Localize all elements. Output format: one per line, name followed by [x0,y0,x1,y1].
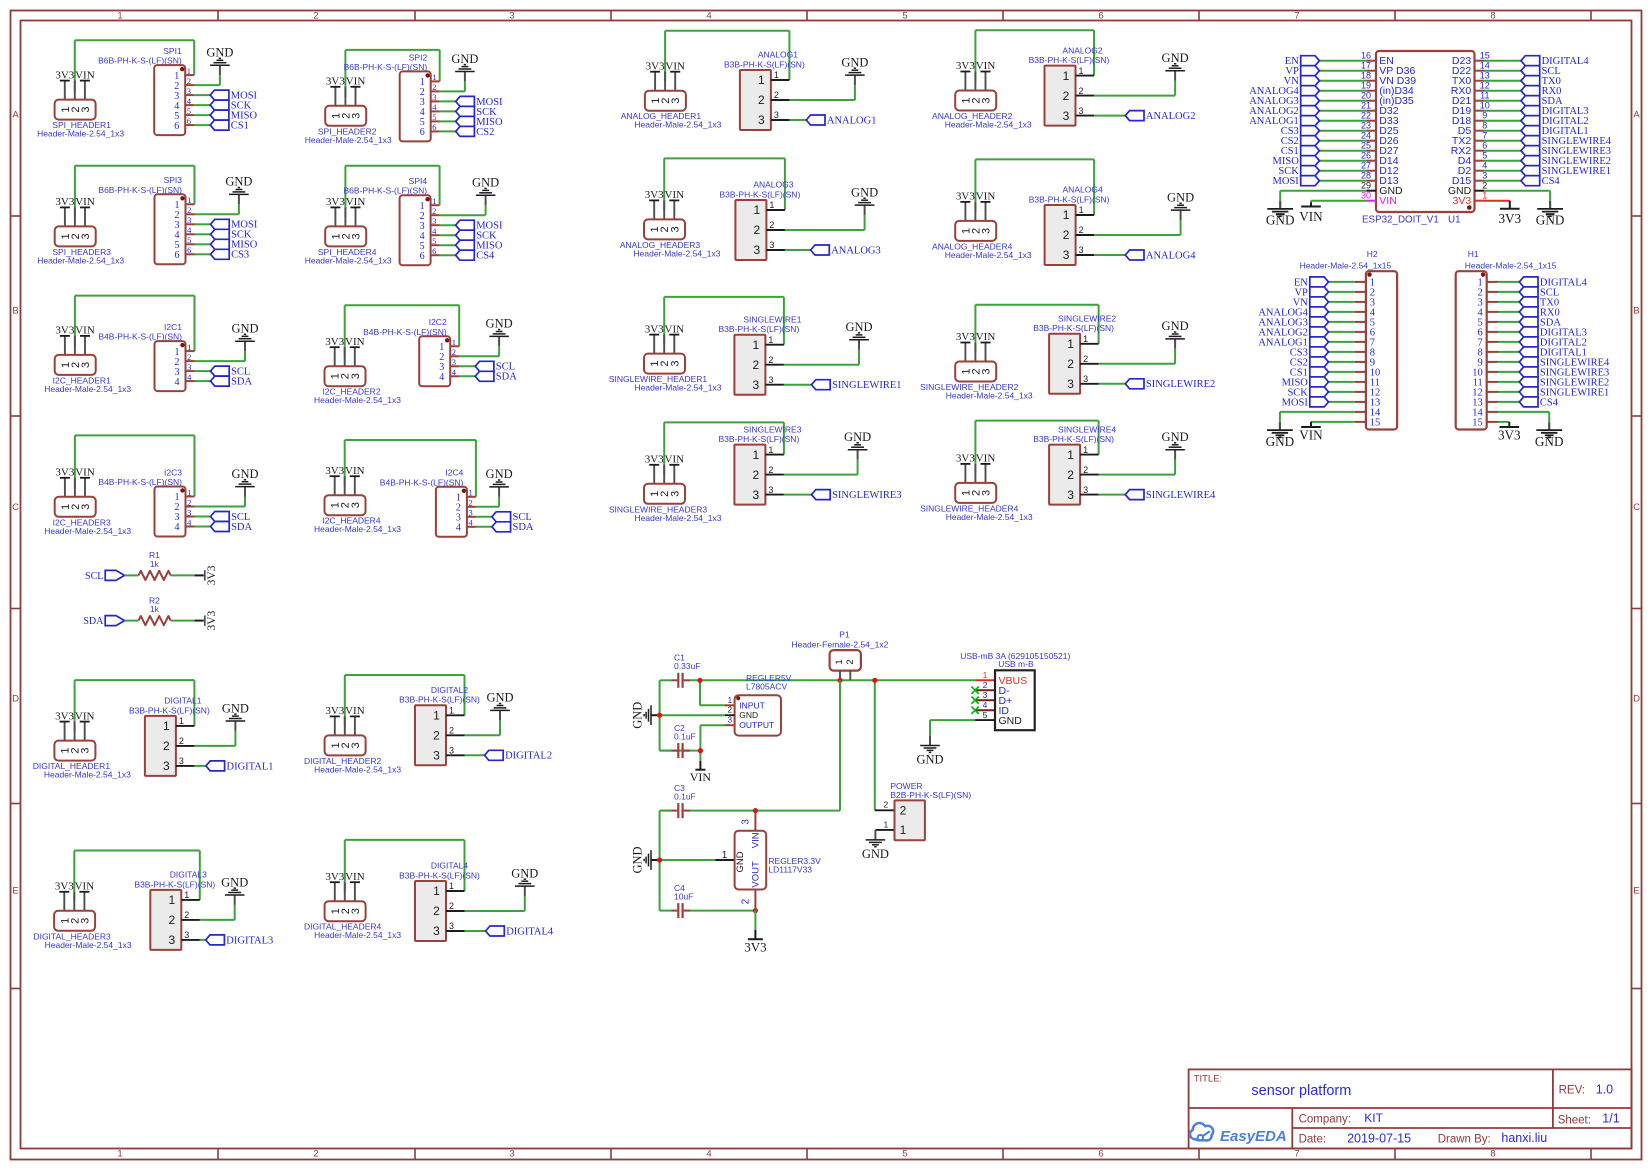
svg-text:B6B-PH-K-S-(LF)(SN): B6B-PH-K-S-(LF)(SN) [344,186,428,196]
svg-text:Header-Male-2.54_1x3: Header-Male-2.54_1x3 [305,135,392,145]
svg-text:Header-Male-2.54_1x3: Header-Male-2.54_1x3 [945,120,1032,130]
svg-text:1: 1 [449,881,454,891]
svg-text:SPI2: SPI2 [409,52,428,62]
svg-text:3V3: 3V3 [325,465,344,477]
svg-text:3: 3 [80,107,92,113]
svg-text:1: 1 [722,850,728,861]
svg-text:4: 4 [432,102,437,112]
svg-text:3V3: 3V3 [956,60,975,72]
svg-text:Header-Male-2.54_1x3: Header-Male-2.54_1x3 [305,255,392,265]
svg-text:1: 1 [187,195,191,205]
svg-text:SDA: SDA [496,372,517,383]
svg-text:VIN: VIN [346,196,366,208]
svg-text:4: 4 [432,226,437,236]
svg-text:1: 1 [1482,191,1487,201]
svg-text:GND: GND [916,752,943,766]
svg-text:23: 23 [1361,121,1371,131]
svg-text:3V3: 3V3 [206,565,218,585]
svg-text:2: 2 [449,726,454,736]
svg-text:1: 1 [187,487,191,497]
svg-text:B2B-PH-K-S(LF)(SN): B2B-PH-K-S(LF)(SN) [890,790,971,800]
svg-text:1k: 1k [150,604,160,614]
svg-text:VIN: VIN [1299,428,1323,443]
svg-text:VIN: VIN [976,331,996,343]
svg-text:1: 1 [1063,69,1070,83]
svg-text:1: 1 [432,196,436,206]
svg-text:2: 2 [313,1148,318,1159]
svg-text:U1: U1 [1448,215,1461,226]
svg-text:2: 2 [432,206,436,216]
svg-text:5: 5 [187,106,191,116]
svg-text:3V3: 3V3 [55,467,74,479]
svg-text:2: 2 [432,82,436,92]
svg-text:2: 2 [468,498,472,508]
svg-text:VOUT: VOUT [750,861,761,888]
svg-text:3V3: 3V3 [325,705,344,717]
svg-text:Header-Male-2.54_1x3: Header-Male-2.54_1x3 [945,250,1032,260]
svg-text:DIGITAL3: DIGITAL3 [170,870,207,880]
svg-text:8: 8 [1490,10,1495,21]
svg-text:2: 2 [753,468,760,482]
svg-text:4: 4 [706,1148,711,1159]
svg-text:1: 1 [184,890,189,900]
svg-text:1: 1 [753,338,760,352]
svg-text:2: 2 [1482,181,1487,191]
svg-text:3: 3 [1083,374,1088,384]
svg-text:ANALOG4: ANALOG4 [1063,185,1103,195]
svg-text:VIN: VIN [665,189,685,201]
svg-text:1: 1 [117,10,122,21]
svg-text:VIN: VIN [665,60,685,72]
svg-text:1: 1 [433,884,440,898]
svg-text:3V3: 3V3 [55,881,74,893]
svg-text:GND: GND [1162,319,1189,333]
svg-text:GND: GND [999,715,1023,727]
svg-text:VIN: VIN [75,325,95,337]
svg-text:GND: GND [841,55,868,69]
svg-text:B3B-PH-K-S(LF)(SN): B3B-PH-K-S(LF)(SN) [399,695,480,705]
svg-text:Header-Male-2.54_1x3: Header-Male-2.54_1x3 [37,255,124,265]
svg-text:3V3: 3V3 [744,940,766,955]
svg-text:3V3: 3V3 [645,454,664,466]
svg-text:8: 8 [1490,1148,1495,1159]
svg-text:6: 6 [420,127,425,138]
svg-text:B3B-PH-K-S(LF)(SN): B3B-PH-K-S(LF)(SN) [719,434,800,444]
svg-text:2: 2 [1063,89,1070,103]
svg-text:Header-Male-2.54_1x3: Header-Male-2.54_1x3 [37,129,124,139]
svg-text:Header-Male-2.54_1x3: Header-Male-2.54_1x3 [314,930,401,940]
svg-text:GND: GND [1535,434,1564,449]
svg-text:1: 1 [774,70,779,80]
svg-text:3: 3 [774,110,779,120]
svg-text:3: 3 [981,490,993,496]
svg-text:3: 3 [1063,248,1070,262]
svg-text:Header-Male-2.54_1x3: Header-Male-2.54_1x3 [635,513,722,523]
svg-text:1: 1 [1083,445,1088,455]
svg-text:4: 4 [452,367,457,377]
svg-text:B6B-PH-K-S-(LF)(SN): B6B-PH-K-S-(LF)(SN) [98,56,182,66]
svg-text:3V3: 3V3 [1498,211,1521,226]
svg-text:6: 6 [187,116,191,126]
svg-text:B3B-PH-K-S(LF)(SN): B3B-PH-K-S(LF)(SN) [724,59,805,69]
svg-text:SINGLEWIRE1: SINGLEWIRE1 [743,314,801,324]
svg-text:3V3: 3V3 [55,196,74,208]
svg-text:2: 2 [452,347,456,357]
svg-text:GND: GND [845,320,872,334]
svg-text:OUTPUT: OUTPUT [739,720,774,730]
svg-text:2: 2 [1079,225,1084,235]
svg-text:2: 2 [1063,228,1070,242]
svg-text:3V3: 3V3 [55,325,74,337]
svg-text:VIN: VIN [345,465,365,477]
svg-text:GND: GND [472,176,499,190]
svg-text:3: 3 [432,92,436,102]
svg-text:3: 3 [754,243,761,257]
svg-text:4: 4 [1482,161,1487,171]
svg-text:VIN: VIN [75,467,95,479]
svg-text:GND: GND [1536,213,1565,228]
svg-text:3: 3 [351,233,363,239]
svg-text:REV:: REV: [1559,1085,1585,1097]
svg-text:0.33uF: 0.33uF [674,661,700,671]
svg-text:SDA: SDA [231,522,252,533]
svg-text:0.1uF: 0.1uF [674,731,696,741]
svg-text:GND: GND [739,710,758,720]
svg-text:1: 1 [468,488,472,498]
svg-text:2: 2 [754,223,761,237]
svg-text:CS4: CS4 [1542,176,1561,187]
svg-text:Header-Male-2.54_1x3: Header-Male-2.54_1x3 [44,526,131,536]
svg-text:3: 3 [350,373,362,379]
svg-text:2: 2 [187,76,191,86]
svg-text:I2C3: I2C3 [164,467,182,477]
svg-text:3: 3 [468,508,472,518]
svg-text:GND: GND [221,875,248,889]
svg-text:6: 6 [432,122,436,132]
svg-text:1: 1 [117,1148,122,1159]
svg-text:2: 2 [884,799,889,809]
svg-text:1: 1 [432,72,436,82]
svg-text:6: 6 [432,246,436,256]
svg-text:4: 4 [175,377,180,388]
svg-text:VIN: VIN [345,705,365,717]
svg-text:1: 1 [900,823,907,837]
svg-text:11: 11 [1480,91,1489,101]
svg-text:3: 3 [1078,106,1083,116]
svg-text:3: 3 [753,488,760,502]
svg-text:15: 15 [1472,418,1483,429]
svg-text:L7805ACV: L7805ACV [746,681,787,691]
svg-text:2: 2 [758,93,765,107]
svg-text:3: 3 [753,378,760,392]
svg-text:3V3: 3V3 [55,710,74,722]
svg-text:B3B-PH-K-S(LF)(SN): B3B-PH-K-S(LF)(SN) [1033,323,1114,333]
svg-text:3: 3 [509,1148,514,1159]
svg-text:VIN: VIN [976,191,996,203]
svg-text:1/1: 1/1 [1602,1112,1619,1126]
svg-text:CS1: CS1 [231,121,249,132]
svg-text:2: 2 [774,90,779,100]
svg-text:GND: GND [231,467,258,481]
svg-text:B4B-PH-K-S-(LF)(SN): B4B-PH-K-S-(LF)(SN) [98,332,182,342]
svg-text:B4B-PH-K-S-(LF)(SN): B4B-PH-K-S-(LF)(SN) [380,477,464,487]
svg-text:1: 1 [834,659,845,664]
svg-text:Header-Male-2.54_1x3: Header-Male-2.54_1x3 [314,395,401,405]
svg-text:4: 4 [456,523,461,534]
svg-text:9: 9 [1482,111,1487,121]
svg-text:SINGLEWIRE4: SINGLEWIRE4 [1058,424,1116,434]
svg-text:4: 4 [175,522,180,533]
svg-text:3: 3 [768,485,773,495]
svg-text:VIN: VIN [1299,209,1323,224]
svg-text:5: 5 [187,235,191,245]
svg-text:10uF: 10uF [674,891,693,901]
svg-text:4: 4 [187,96,192,106]
svg-text:1: 1 [1067,337,1074,351]
svg-text:GND: GND [1266,213,1295,228]
svg-text:1: 1 [1083,334,1088,344]
svg-text:2: 2 [845,659,856,664]
svg-text:6: 6 [174,121,179,132]
svg-text:Header-Female-2.54_1x2: Header-Female-2.54_1x2 [791,639,888,649]
svg-text:3V3: 3V3 [206,610,218,630]
svg-text:3: 3 [670,98,682,104]
svg-text:DIGITAL1: DIGITAL1 [164,696,201,706]
svg-text:Header-Male-2.54_1x3: Header-Male-2.54_1x3 [44,384,131,394]
svg-text:ANALOG1: ANALOG1 [758,50,798,60]
svg-text:VIN: VIN [346,76,366,88]
svg-text:3V3: 3V3 [326,76,345,88]
svg-text:Date:: Date: [1299,1133,1327,1145]
svg-text:GND: GND [1162,51,1189,65]
svg-text:1: 1 [768,335,773,345]
svg-text:Company:: Company: [1299,1113,1351,1125]
svg-text:2: 2 [983,680,988,690]
svg-text:1: 1 [187,342,191,352]
svg-text:I2C4: I2C4 [445,468,463,478]
svg-text:B: B [12,305,18,316]
svg-text:3: 3 [179,756,184,766]
svg-text:3: 3 [981,97,993,103]
svg-text:USB m-B: USB m-B [998,659,1034,669]
svg-text:3: 3 [350,502,362,508]
svg-text:B3B-PH-K-S(LF)(SN): B3B-PH-K-S(LF)(SN) [720,189,801,199]
svg-text:3: 3 [728,716,733,725]
svg-text:1: 1 [758,73,765,87]
svg-text:13: 13 [1480,71,1490,81]
svg-text:2: 2 [433,904,440,918]
svg-text:Header-Male-2.54_1x15: Header-Male-2.54_1x15 [1465,261,1557,271]
svg-text:24: 24 [1361,131,1371,141]
svg-text:2: 2 [187,205,191,215]
svg-text:GND: GND [511,866,538,880]
svg-text:VIN: VIN [690,770,712,784]
svg-text:1: 1 [452,337,456,347]
svg-text:2: 2 [1083,354,1088,364]
svg-text:3: 3 [350,908,362,914]
svg-text:5: 5 [1482,151,1487,161]
svg-text:GND: GND [225,175,252,189]
svg-text:E: E [1633,885,1639,896]
svg-text:VIN: VIN [75,69,95,81]
svg-text:3: 3 [80,504,92,510]
svg-text:2019-07-15: 2019-07-15 [1347,1131,1411,1145]
svg-text:2: 2 [168,913,175,927]
svg-text:SDA: SDA [513,522,534,533]
svg-text:3: 3 [740,819,751,825]
svg-text:1: 1 [1078,66,1083,76]
svg-text:DIGITAL2: DIGITAL2 [505,751,552,762]
svg-text:21: 21 [1361,101,1371,111]
svg-text:GND: GND [1266,434,1295,449]
svg-text:CS4: CS4 [476,251,495,262]
svg-text:DIGITAL3: DIGITAL3 [226,935,273,946]
svg-text:16: 16 [1361,51,1371,61]
svg-text:B3B-PH-K-S(LF)(SN): B3B-PH-K-S(LF)(SN) [1033,434,1114,444]
svg-text:19: 19 [1361,81,1371,91]
svg-text:hanxi.liu: hanxi.liu [1501,1131,1547,1145]
svg-text:2: 2 [163,739,170,753]
svg-text:0.1uF: 0.1uF [674,791,696,801]
svg-text:3: 3 [669,491,681,497]
svg-text:GND: GND [630,702,644,729]
svg-text:2: 2 [740,898,751,904]
svg-text:3: 3 [768,375,773,385]
svg-text:B3B-PH-K-S(LF)(SN): B3B-PH-K-S(LF)(SN) [399,870,480,880]
svg-text:3: 3 [80,748,92,754]
svg-text:SPI4: SPI4 [409,176,428,186]
svg-text:2: 2 [1067,357,1074,371]
svg-text:SINGLEWIRE2: SINGLEWIRE2 [1146,379,1215,390]
svg-text:Header-Male-2.54_1x3: Header-Male-2.54_1x3 [44,770,131,780]
svg-text:17: 17 [1361,61,1371,71]
svg-text:2: 2 [1067,468,1074,482]
svg-text:2: 2 [769,220,774,230]
svg-text:D: D [1633,693,1640,704]
svg-text:3V3: 3V3 [326,196,345,208]
svg-text:7: 7 [1294,10,1299,21]
svg-text:3: 3 [449,746,454,756]
svg-text:MOSI: MOSI [1273,176,1300,187]
svg-text:2: 2 [449,901,454,911]
svg-text:3: 3 [184,930,189,940]
svg-text:2: 2 [187,352,191,362]
svg-text:I2C1: I2C1 [164,322,182,332]
svg-text:3: 3 [432,216,436,226]
svg-text:SCL: SCL [85,571,103,582]
svg-text:3: 3 [981,228,993,234]
svg-text:GND: GND [1167,190,1194,204]
svg-text:VIN: VIN [345,336,365,348]
svg-text:D: D [12,693,19,704]
svg-text:29: 29 [1361,181,1371,191]
svg-text:1: 1 [163,719,170,733]
svg-text:CS3: CS3 [231,250,249,261]
svg-text:GND: GND [222,701,249,715]
svg-text:3: 3 [433,749,440,763]
svg-text:3: 3 [168,933,175,947]
svg-text:2: 2 [768,355,773,365]
svg-text:B6B-PH-K-S-(LF)(SN): B6B-PH-K-S-(LF)(SN) [344,62,428,72]
svg-text:1: 1 [753,448,760,462]
svg-text:27: 27 [1361,161,1371,171]
svg-text:3: 3 [1079,245,1084,255]
svg-text:SPI3: SPI3 [164,175,183,185]
svg-text:3: 3 [509,10,514,21]
svg-text:B3B-PH-K-S(LF)(SN): B3B-PH-K-S(LF)(SN) [1029,55,1110,65]
svg-text:2: 2 [179,736,184,746]
svg-text:5: 5 [902,1148,907,1159]
svg-text:VIN: VIN [665,454,685,466]
svg-text:Header-Male-2.54_1x3: Header-Male-2.54_1x3 [314,764,401,774]
svg-text:DIGITAL4: DIGITAL4 [506,926,554,937]
svg-text:Header-Male-2.54_1x3: Header-Male-2.54_1x3 [946,391,1033,401]
svg-text:1.0: 1.0 [1596,1083,1613,1097]
svg-text:Header-Male-2.54_1x3: Header-Male-2.54_1x3 [634,120,721,130]
svg-text:4: 4 [187,225,192,235]
svg-text:3: 3 [1063,109,1070,123]
svg-text:Header-Male-2.54_1x3: Header-Male-2.54_1x3 [635,383,722,393]
svg-text:VIN: VIN [976,60,996,72]
svg-text:B6B-PH-K-S-(LF)(SN): B6B-PH-K-S-(LF)(SN) [98,185,182,195]
svg-text:2: 2 [753,358,760,372]
svg-text:B4B-PH-K-S-(LF)(SN): B4B-PH-K-S-(LF)(SN) [98,477,182,487]
svg-text:B: B [1633,305,1639,316]
svg-text:15: 15 [1370,418,1381,429]
svg-text:4: 4 [468,518,473,528]
svg-text:Header-Male-2.54_1x15: Header-Male-2.54_1x15 [1300,261,1392,271]
svg-text:3V3: 3V3 [645,323,664,335]
svg-text:GND: GND [862,847,889,861]
svg-text:VIN: VIN [665,323,685,335]
svg-text:3: 3 [187,86,191,96]
svg-text:ANALOG2: ANALOG2 [1146,111,1196,122]
svg-text:B3B-PH-K-S(LF)(SN): B3B-PH-K-S(LF)(SN) [129,705,210,715]
svg-text:3: 3 [350,742,362,748]
svg-text:5: 5 [432,112,436,122]
svg-text:3V3: 3V3 [1453,195,1472,207]
svg-text:5: 5 [432,236,436,246]
svg-text:VIN: VIN [345,871,365,883]
svg-text:ESP32_DOIT_V1: ESP32_DOIT_V1 [1362,215,1439,226]
svg-text:3V3: 3V3 [645,189,664,201]
svg-text:Header-Male-2.54_1x3: Header-Male-2.54_1x3 [634,248,721,258]
svg-text:ANALOG3: ANALOG3 [753,180,793,190]
svg-text:VIN: VIN [75,881,95,893]
svg-text:GND: GND [231,322,258,336]
svg-text:H2: H2 [1367,249,1378,259]
svg-text:5: 5 [902,10,907,21]
svg-text:3: 3 [449,921,454,931]
svg-text:CS4: CS4 [1540,397,1559,408]
svg-text:1: 1 [754,203,761,217]
svg-text:1: 1 [449,706,454,716]
svg-text:GND: GND [851,185,878,199]
svg-text:I2C2: I2C2 [429,317,447,327]
svg-text:DIGITAL4: DIGITAL4 [431,861,468,871]
svg-text:30: 30 [1361,191,1371,201]
svg-text:SDA: SDA [231,377,252,388]
svg-text:VIN: VIN [75,710,95,722]
svg-text:5: 5 [983,710,988,720]
svg-text:6: 6 [175,250,180,261]
svg-text:H1: H1 [1468,249,1479,259]
svg-text:B4B-PH-K-S-(LF)(SN): B4B-PH-K-S-(LF)(SN) [363,327,447,337]
svg-text:SINGLEWIRE3: SINGLEWIRE3 [743,424,801,434]
svg-text:EasyEDA: EasyEDA [1220,1128,1287,1145]
svg-text:2: 2 [187,497,191,507]
svg-text:GND: GND [206,46,233,60]
